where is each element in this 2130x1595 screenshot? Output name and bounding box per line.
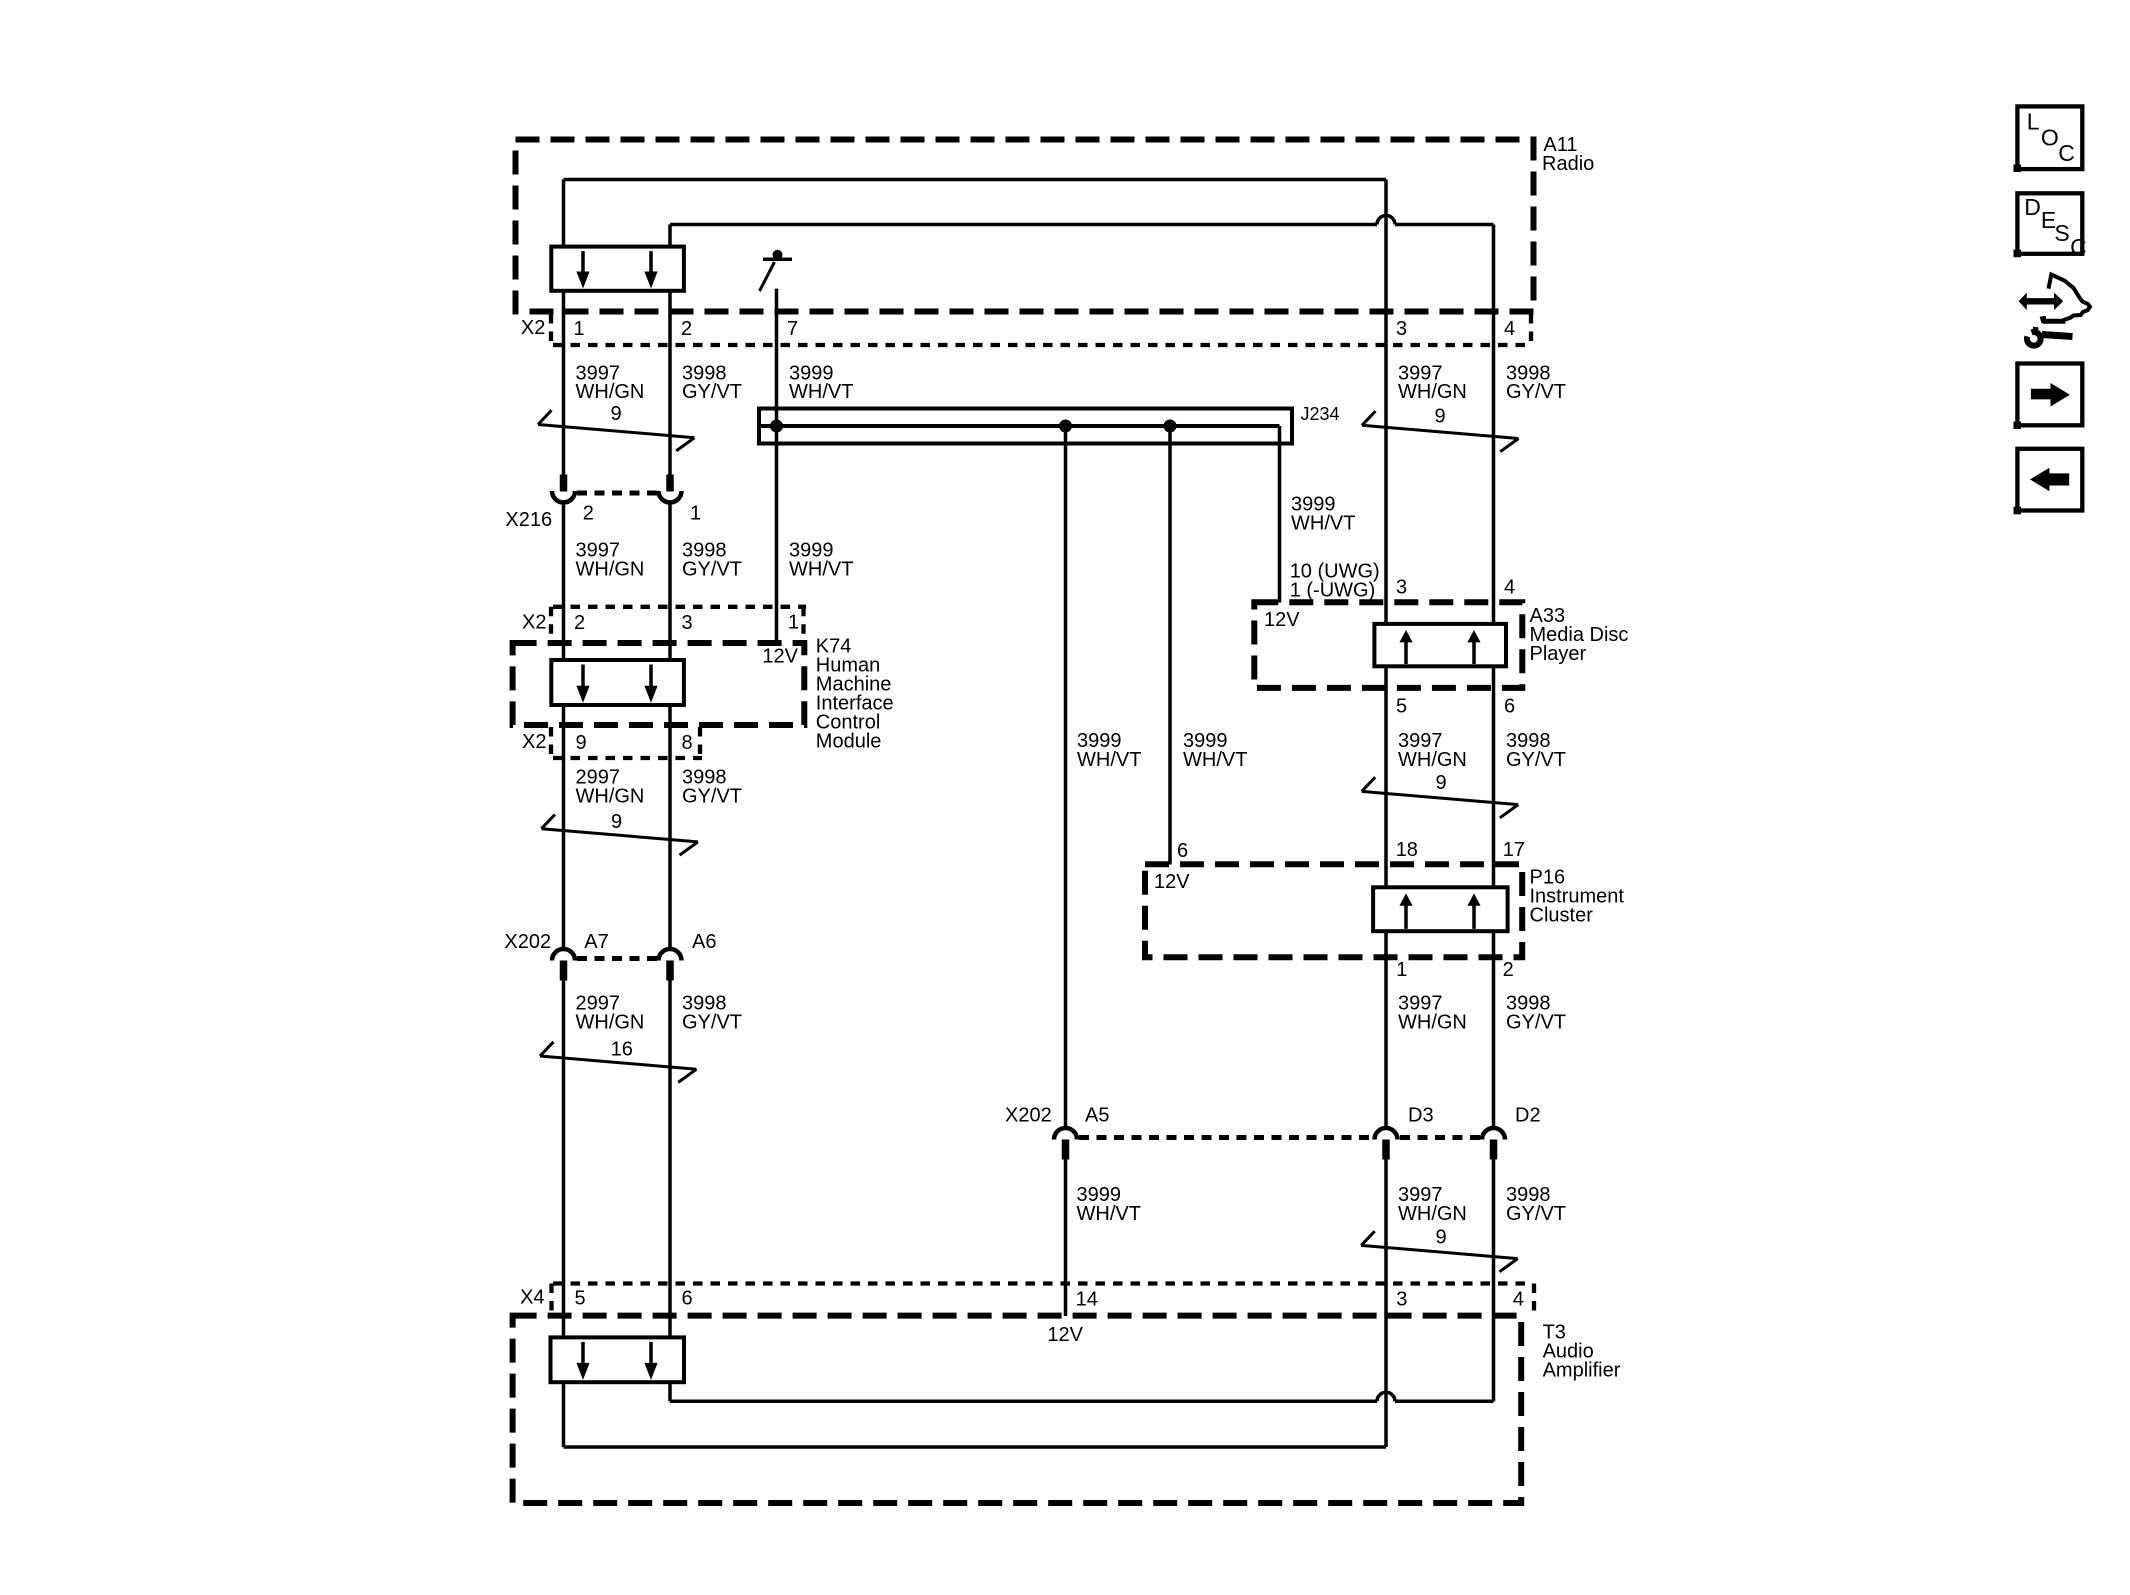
- svg-text:17: 17: [1503, 839, 1525, 861]
- component T3 Audio Amplifier dashed box: [513, 1316, 1621, 1503]
- svg-text:GY/VT: GY/VT: [682, 1012, 742, 1034]
- svg-text:Radio: Radio: [1542, 153, 1594, 175]
- svg-text:X202: X202: [504, 931, 551, 953]
- svg-text:X2: X2: [521, 317, 545, 339]
- wire 3999 WH/VT switch drop (radio X2-7 to K74 X2-1 12V): [775, 289, 779, 643]
- svg-text:2: 2: [574, 612, 585, 634]
- svg-text:D2: D2: [1515, 1105, 1541, 1127]
- connector row X2 of K74 (pins 9,8): [522, 727, 702, 758]
- component K74 Human Machine Interface Control Module dashed box: [513, 636, 894, 753]
- component A11 Radio dashed box: [516, 134, 1595, 311]
- icon previous-page arrow box: [2014, 449, 2083, 515]
- svg-text:Amplifier: Amplifier: [1543, 1360, 1621, 1382]
- svg-text:X2: X2: [522, 612, 546, 634]
- wire 3997 WH/GN right vertical (radio X2-3 to T3 X4-3): [1384, 180, 1388, 1448]
- wire 3999 WH/VT middle (J234 to P16-6 12V): [1168, 426, 1172, 865]
- label 3998 GY/VT (X202-A6): [682, 993, 742, 1034]
- svg-text:WH/GN: WH/GN: [1398, 749, 1467, 771]
- label 3998 GY/VT (X202-D2): [1506, 1184, 1566, 1225]
- svg-text:WH/GN: WH/GN: [1398, 1012, 1467, 1034]
- svg-text:9: 9: [1435, 406, 1446, 428]
- label 3999 WH/VT (X202-A5): [1077, 1184, 1141, 1225]
- svg-text:X216: X216: [505, 509, 552, 531]
- svg-text:2: 2: [681, 318, 692, 340]
- svg-text:4: 4: [1513, 1289, 1524, 1311]
- svg-text:D: D: [2024, 194, 2041, 220]
- svg-text:3: 3: [1396, 318, 1407, 340]
- wire radio internal top (pin1 to pin3): [564, 178, 1387, 182]
- pin 18 of P16: [1396, 839, 1418, 861]
- label 12V (T3 pin14): [1047, 1324, 1083, 1346]
- label 12V (K74 pin1): [762, 646, 798, 668]
- svg-text:WH/GN: WH/GN: [1398, 1203, 1467, 1225]
- svg-text:WH/VT: WH/VT: [789, 381, 853, 403]
- junction dot J234 at P16-6 wire: [1164, 420, 1177, 433]
- icon DESC box: [2014, 193, 2087, 260]
- connector box K74 (down arrows): [551, 660, 684, 705]
- pin 6 of A33: [1504, 695, 1515, 717]
- svg-text:WH/VT: WH/VT: [1077, 749, 1141, 771]
- svg-text:1: 1: [690, 502, 701, 524]
- connector box A11 (down arrows): [551, 247, 684, 291]
- svg-text:3: 3: [1396, 577, 1407, 599]
- wire 3999 WH/VT right drop (J234 to A33 12V): [1278, 426, 1282, 603]
- icon next-page arrow box: [2014, 364, 2083, 430]
- label 12V (P16): [1154, 871, 1190, 893]
- wire T3 internal lower (X4-5 to X4-3): [564, 1445, 1387, 1449]
- svg-text:C: C: [2058, 140, 2075, 166]
- junction dot J234 at 3999 switch wire: [770, 420, 783, 433]
- inline connector X202 (A5, D3, D2): [1005, 1105, 1541, 1160]
- label 12V (A33): [1264, 609, 1300, 631]
- svg-text:A6: A6: [692, 931, 716, 953]
- wire 3998 GY/VT left vertical (radio X2-2 to T3 X4-6): [668, 225, 672, 1402]
- pin 3 of A33: [1396, 577, 1407, 599]
- svg-text:7: 7: [787, 318, 798, 340]
- connector box A33 (up arrows): [1374, 624, 1506, 666]
- svg-text:O: O: [2041, 124, 2059, 150]
- svg-text:GY/VT: GY/VT: [1506, 1012, 1566, 1034]
- label 3998 GY/VT (P16-2): [1506, 993, 1566, 1034]
- label 2997 WH/GN (K74 X2-9): [576, 767, 645, 808]
- svg-text:14: 14: [1076, 1289, 1098, 1311]
- label 3998 GY/VT (radio pin4): [1506, 362, 1566, 403]
- label 3999 WH/VT (P16-6 wire): [1183, 730, 1247, 771]
- svg-text:5: 5: [1396, 695, 1407, 717]
- label 3999 WH/VT (radio pin7): [789, 362, 853, 403]
- twisted pair symbol 9 (left, radio to X216): [538, 403, 695, 451]
- wire T3 internal upper (X4-6 to X4-4) with hop: [670, 1392, 1494, 1401]
- svg-text:2: 2: [583, 503, 594, 525]
- label 3997 WH/GN (radio pin1): [576, 362, 645, 403]
- svg-text:GY/VT: GY/VT: [1506, 1203, 1566, 1225]
- svg-text:S: S: [2054, 220, 2069, 246]
- svg-text:9: 9: [576, 732, 587, 754]
- pin 2 of P16: [1503, 959, 1514, 981]
- svg-text:3: 3: [682, 612, 693, 634]
- junction dot J234 at X202-A5 wire: [1059, 420, 1072, 433]
- component P16 Instrument Cluster dashed box: [1145, 864, 1624, 957]
- pin 17 of P16: [1503, 839, 1525, 861]
- svg-text:9: 9: [1436, 772, 1447, 794]
- svg-text:GY/VT: GY/VT: [1506, 381, 1566, 403]
- connector row X2 of A11: [521, 314, 1531, 345]
- svg-text:4: 4: [1504, 318, 1515, 340]
- pin 5 of A33: [1396, 695, 1407, 717]
- svg-text:12V: 12V: [1047, 1324, 1083, 1346]
- svg-text:Cluster: Cluster: [1530, 905, 1594, 927]
- svg-text:X4: X4: [520, 1287, 544, 1309]
- svg-text:8: 8: [682, 732, 693, 754]
- svg-text:X202: X202: [1005, 1105, 1052, 1127]
- svg-text:1: 1: [1396, 959, 1407, 981]
- svg-text:WH/GN: WH/GN: [576, 381, 645, 403]
- svg-text:WH/VT: WH/VT: [1077, 1203, 1141, 1225]
- label 3997 WH/GN (X202-D3): [1398, 1184, 1467, 1225]
- label 3998 GY/VT (K74 X2-8): [682, 767, 742, 808]
- svg-text:5: 5: [575, 1288, 586, 1310]
- connector box P16 (up arrows): [1373, 887, 1508, 931]
- svg-text:WH/GN: WH/GN: [1398, 381, 1467, 403]
- pin label 10 (UWG) / 1 (-UWG) of A33: [1290, 561, 1380, 602]
- inline connector X216: [505, 475, 701, 532]
- connector row X2 of K74 (pins 2,3,1): [522, 607, 806, 641]
- svg-text:6: 6: [1177, 840, 1188, 862]
- label 3998 GY/VT (A33-6): [1506, 730, 1566, 771]
- svg-text:Player: Player: [1530, 643, 1587, 665]
- svg-text:16: 16: [611, 1039, 633, 1061]
- svg-text:WH/VT: WH/VT: [789, 559, 853, 581]
- wire 3998 GY/VT right vertical (radio X2-4 to T3 X4-4): [1492, 225, 1496, 1402]
- svg-text:WH/GN: WH/GN: [576, 786, 645, 808]
- svg-text:L: L: [2027, 109, 2040, 135]
- connector box T3 (down arrows): [551, 1337, 685, 1382]
- svg-text:Module: Module: [816, 731, 882, 753]
- svg-text:1: 1: [574, 318, 585, 340]
- svg-text:GY/VT: GY/VT: [682, 786, 742, 808]
- svg-text:WH/VT: WH/VT: [1291, 512, 1355, 534]
- svg-text:D3: D3: [1408, 1105, 1434, 1127]
- svg-text:X2: X2: [522, 731, 546, 753]
- component A33 Media Disc Player dashed box: [1254, 602, 1628, 688]
- label 3997 WH/GN (X216-2): [576, 540, 645, 581]
- svg-text:2: 2: [1503, 959, 1514, 981]
- label 3997 WH/GN (P16-1): [1398, 993, 1467, 1034]
- svg-text:1: 1: [788, 612, 799, 634]
- svg-text:12V: 12V: [1264, 609, 1300, 631]
- svg-text:WH/VT: WH/VT: [1183, 749, 1247, 771]
- svg-text:9: 9: [611, 811, 622, 833]
- wire radio internal second (pin2 to pin4) with hop: [670, 216, 1494, 225]
- svg-text:12V: 12V: [762, 646, 798, 668]
- svg-text:J234: J234: [1301, 404, 1340, 424]
- twisted pair symbol 9 (left, K74 to X202): [541, 811, 698, 855]
- twisted pair symbol 9 (right, radio to A33): [1362, 406, 1519, 452]
- svg-text:WH/GN: WH/GN: [576, 559, 645, 581]
- svg-text:A5: A5: [1085, 1105, 1109, 1127]
- svg-text:1 (-UWG): 1 (-UWG): [1290, 580, 1376, 602]
- svg-text:WH/GN: WH/GN: [576, 1012, 645, 1034]
- switch symbol inside A11 (mute switch): [760, 250, 793, 291]
- pin 1 of P16: [1396, 959, 1407, 981]
- pin 6 of P16: [1177, 840, 1188, 862]
- svg-text:GY/VT: GY/VT: [682, 559, 742, 581]
- svg-text:6: 6: [1504, 695, 1515, 717]
- twisted pair symbol 16 (left, X202 to T3): [540, 1039, 697, 1083]
- label 3999 WH/VT (below radio pin7): [789, 540, 853, 581]
- label 3998 GY/VT (X216-1): [682, 540, 742, 581]
- label 3997 WH/GN (radio pin3): [1398, 362, 1467, 403]
- svg-text:18: 18: [1396, 839, 1418, 861]
- svg-text:C: C: [2070, 234, 2087, 260]
- label 3999 WH/VT (X202-A5 wire): [1077, 730, 1141, 771]
- wire 3999 WH/VT middle (J234 to X202 A5 to T3 X4-14 12V): [1064, 426, 1068, 1316]
- connector row X4 of T3: [520, 1284, 1534, 1315]
- splice pack J234: [759, 404, 1340, 443]
- label 3997 WH/GN (A33-5): [1398, 730, 1467, 771]
- svg-text:3: 3: [1396, 1289, 1407, 1311]
- wire 3997 WH/GN left vertical (radio X2-1 to T3 X4-5): [562, 180, 566, 1448]
- svg-text:12V: 12V: [1154, 871, 1190, 893]
- inline connector X202 (A7, A6): [504, 931, 716, 980]
- pin 4 of A33: [1504, 577, 1515, 599]
- svg-text:GY/VT: GY/VT: [682, 381, 742, 403]
- svg-text:GY/VT: GY/VT: [1506, 749, 1566, 771]
- twisted pair symbol 9 (right, X202 to T3): [1361, 1227, 1518, 1272]
- twisted pair symbol 9 (right, A33 to P16): [1362, 772, 1519, 818]
- label 3998 GY/VT (radio pin2): [682, 362, 742, 403]
- icon double arrow with part outline and wrench: [2019, 275, 2090, 346]
- svg-text:A7: A7: [584, 931, 608, 953]
- icon LOC box: [2014, 106, 2083, 172]
- svg-text:9: 9: [611, 403, 622, 425]
- label 3999 WH/VT (A33 12V wire): [1291, 493, 1355, 534]
- label 2997 WH/GN (X202-A7): [576, 993, 645, 1034]
- svg-text:6: 6: [682, 1288, 693, 1310]
- svg-text:9: 9: [1436, 1227, 1447, 1249]
- svg-text:4: 4: [1504, 577, 1515, 599]
